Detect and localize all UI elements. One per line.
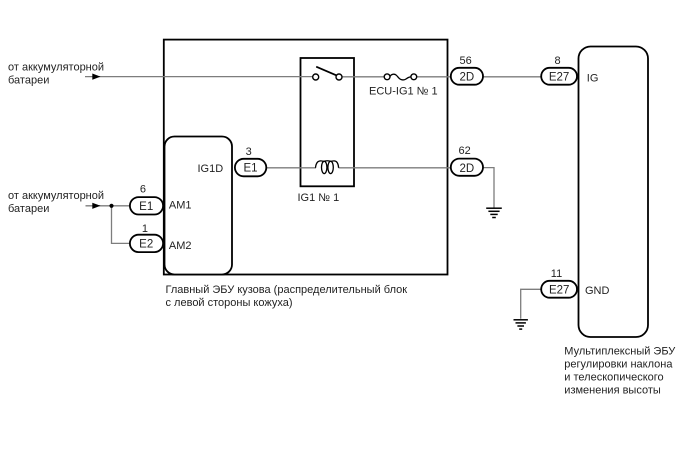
wire: battery feed to ignition switch contact	[85, 76, 314, 78]
ground at E27 pin 11	[514, 320, 528, 329]
svg-text:11: 11	[551, 268, 562, 280]
label: from battery (top)	[8, 61, 104, 86]
relay switch contact	[313, 67, 342, 80]
svg-text:от аккумуляторной: от аккумуляторной	[8, 190, 104, 202]
svg-text:2D: 2D	[459, 163, 474, 175]
svg-text:ECU-IG1 № 1: ECU-IG1 № 1	[369, 86, 438, 98]
arrow battery feed bottom	[92, 203, 100, 209]
svg-text:Мультиплексный ЭБУ: Мультиплексный ЭБУ	[564, 345, 676, 357]
svg-text:E27: E27	[549, 71, 569, 83]
svg-text:E2: E2	[139, 239, 153, 251]
wire: connector E1 pin 3 to relay coil	[266, 167, 316, 169]
connector block IG1D outline	[165, 137, 233, 275]
wire: E27 pin 11 to ground	[521, 289, 541, 319]
svg-text:6: 6	[140, 183, 146, 195]
connector oval E1 pin 3	[235, 159, 266, 177]
svg-text:с левой стороны кожуха): с левой стороны кожуха)	[166, 297, 293, 309]
svg-text:E1: E1	[243, 163, 257, 175]
svg-text:3: 3	[246, 146, 252, 158]
svg-text:IG1 № 1: IG1 № 1	[298, 192, 340, 204]
svg-text:E27: E27	[549, 284, 569, 296]
caption: main body ECU	[166, 284, 408, 309]
svg-text:62: 62	[458, 145, 470, 157]
connector oval E1 pin 6	[130, 197, 163, 214]
connector oval 2D pin 56	[451, 68, 483, 85]
svg-text:56: 56	[459, 55, 471, 67]
wire: battery feed to E1 pin 6	[86, 205, 131, 207]
svg-text:регулировки наклона: регулировки наклона	[564, 358, 673, 370]
svg-text:IG: IG	[587, 73, 599, 85]
svg-text:батареи: батареи	[8, 74, 49, 86]
svg-text:батареи: батареи	[8, 203, 49, 215]
relay box IG1 No.1	[301, 58, 355, 186]
svg-text:GND: GND	[585, 285, 610, 297]
svg-text:и телескопического: и телескопического	[564, 371, 663, 383]
relay coil	[316, 161, 339, 174]
wire: switch contact to fuse	[340, 76, 386, 78]
connector oval E27 pin 11	[541, 281, 577, 298]
caption: multiplex tilt and telescopic ECU	[564, 345, 676, 396]
svg-text:2D: 2D	[459, 71, 474, 83]
wire: relay coil to connector 2D pin 62	[339, 167, 451, 169]
svg-text:8: 8	[554, 55, 560, 67]
svg-text:1: 1	[142, 223, 148, 235]
wire: 2D pin 56 to E27 pin 8	[484, 76, 542, 78]
svg-text:Главный ЭБУ кузова (распредели: Главный ЭБУ кузова (распределительный бл…	[166, 284, 408, 296]
fuse ECU-IG1 No.1	[384, 74, 416, 80]
arrow battery feed top	[92, 74, 100, 80]
svg-text:AM2: AM2	[169, 240, 192, 252]
svg-text:IG1D: IG1D	[198, 163, 224, 175]
wire: branch from junction to E2 pin 1	[112, 206, 131, 244]
junction dot	[109, 204, 113, 208]
wire: 2D pin 62 to ground	[484, 168, 495, 208]
ground at 2D pin 62	[486, 208, 502, 217]
label: from battery (bottom)	[8, 190, 104, 215]
svg-text:E1: E1	[139, 201, 153, 213]
multiplex ECU block	[579, 47, 649, 338]
main body ECU box	[164, 40, 448, 275]
connector oval E2 pin 1	[130, 235, 163, 252]
svg-text:AM1: AM1	[169, 200, 192, 212]
connector oval 2D pin 62	[451, 159, 483, 176]
wire: fuse to connector 2D pin 56	[415, 76, 450, 78]
svg-text:изменения высоты: изменения высоты	[564, 384, 661, 396]
connector oval E27 pin 8	[541, 68, 577, 85]
svg-text:от аккумуляторной: от аккумуляторной	[8, 61, 104, 73]
